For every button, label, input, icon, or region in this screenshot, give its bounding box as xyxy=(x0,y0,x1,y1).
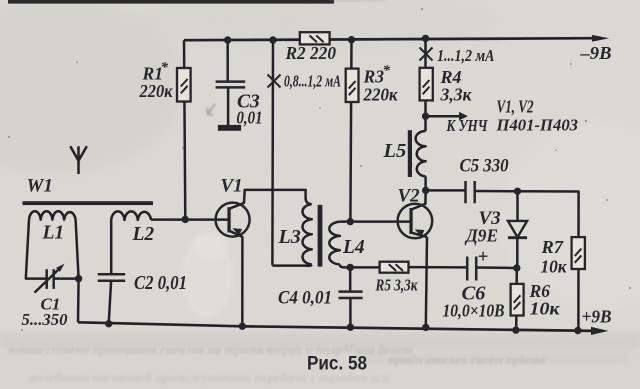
svg-text:220к: 220к xyxy=(363,85,399,105)
svg-text:V2: V2 xyxy=(398,186,421,207)
svg-text:0,01: 0,01 xyxy=(237,108,263,128)
svg-text:+: + xyxy=(478,247,489,268)
svg-text:5...350: 5...350 xyxy=(22,310,68,329)
svg-text:*: * xyxy=(383,63,391,79)
svg-text:R2 220: R2 220 xyxy=(285,43,336,63)
svg-text:L2: L2 xyxy=(132,224,155,245)
svg-text:*: * xyxy=(161,60,169,76)
svg-text:C5 330: C5 330 xyxy=(460,156,509,177)
svg-text:10к: 10к xyxy=(530,299,561,319)
svg-text:V1, V2: V1, V2 xyxy=(497,97,534,117)
svg-text:10,0×10В: 10,0×10В xyxy=(443,301,505,321)
svg-text:R5 3,3к: R5 3,3к xyxy=(375,276,418,295)
svg-text:К УНЧ: К УНЧ xyxy=(446,116,489,135)
svg-text:R7: R7 xyxy=(540,237,564,257)
svg-text:L5: L5 xyxy=(383,140,407,162)
svg-text:Д9Е: Д9Е xyxy=(464,226,498,246)
svg-text:10к: 10к xyxy=(541,257,568,277)
svg-text:3,3к: 3,3к xyxy=(440,85,473,105)
svg-text:W1: W1 xyxy=(27,176,53,197)
svg-text:П401-П403: П401-П403 xyxy=(496,116,579,135)
svg-text:Рис. 58: Рис. 58 xyxy=(307,354,367,375)
svg-text:V1: V1 xyxy=(221,176,243,197)
svg-text:L1: L1 xyxy=(42,223,65,244)
svg-text:L4: L4 xyxy=(342,237,365,258)
svg-text:C4 0,01: C4 0,01 xyxy=(278,288,332,309)
svg-text:–9В: –9В xyxy=(579,43,611,63)
svg-text:1...1,2 мА: 1...1,2 мА xyxy=(437,46,495,65)
svg-text:0,8...1,2 мА: 0,8...1,2 мА xyxy=(284,72,341,91)
svg-text:220к: 220к xyxy=(139,81,174,101)
svg-text:R3: R3 xyxy=(363,67,384,87)
svg-text:прмeн атсяеx снгeм прieмa: прмeн атсяеx снгeм прieмa xyxy=(388,352,546,367)
svg-text:+9В: +9В xyxy=(582,307,612,327)
svg-text:L3: L3 xyxy=(278,226,301,248)
svg-text:C2 0,01: C2 0,01 xyxy=(134,272,187,294)
